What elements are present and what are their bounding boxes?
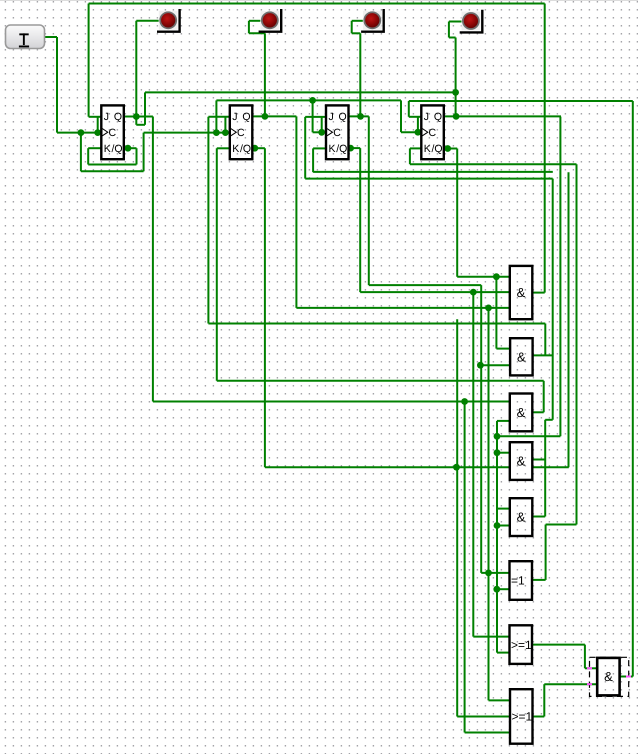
wire into AND U9 input 2 bbox=[544, 683, 597, 685]
junction /Q2 pin bbox=[251, 145, 258, 152]
wire Q2 output bbox=[252, 115, 296, 117]
wire T down to clock row bbox=[56, 37, 58, 133]
svg-text:&: & bbox=[517, 405, 526, 420]
wire /Q2 row through AND U5 input 2 to K4 riser bbox=[265, 466, 569, 468]
junction Q3/LED3 bbox=[357, 113, 364, 120]
wire into K4 pin bbox=[410, 147, 421, 149]
svg-text:/Q: /Q bbox=[336, 143, 347, 155]
wire K4 row bbox=[410, 163, 577, 165]
wire into XOR input 1 bbox=[481, 572, 509, 574]
wire clock under FF1 bottom bbox=[81, 170, 144, 172]
wire into AND U4 input 2 bbox=[497, 420, 510, 422]
wire into AND U5 input 1 bbox=[497, 452, 510, 454]
wire K3 riser to AND U5 in2 row bbox=[568, 172, 570, 467]
wire branch to AND U3 input 1 bbox=[495, 277, 497, 349]
wire into OR2 input 1 bbox=[489, 699, 511, 701]
wire /Q1 under FF1 bbox=[88, 164, 136, 166]
svg-text:/Q: /Q bbox=[240, 143, 251, 155]
wire /Q2 vertical bbox=[264, 148, 266, 467]
wire into C3 pin bbox=[313, 131, 326, 133]
svg-text:K: K bbox=[424, 143, 431, 155]
wire into OR1 input 2 bbox=[497, 652, 510, 654]
wire clock into C1 bbox=[57, 132, 101, 134]
wire /Q4 output row bbox=[444, 148, 457, 150]
svg-text:>=1: >=1 bbox=[511, 638, 532, 652]
svg-text:K: K bbox=[104, 143, 111, 155]
wire into LED4 pin bbox=[449, 21, 462, 23]
junction AND U5 input 1 bbox=[494, 449, 501, 456]
wire upper C-bus to FF3/FF4 clocks bbox=[216, 99, 401, 101]
wire OR2 output riser bbox=[543, 684, 545, 716]
wire into K1 pin bbox=[88, 147, 101, 149]
wire AND U4 output stub bbox=[532, 411, 544, 413]
junction Q3 to AND U3 input 2 bbox=[477, 362, 484, 369]
junction Q1/LED1 bbox=[133, 113, 140, 120]
wire AND U2 output riser to top bus bbox=[544, 4, 546, 293]
junction Q4 to input bus bbox=[494, 433, 501, 440]
svg-text:>=1: >=1 bbox=[512, 710, 533, 724]
junction C3 stub bbox=[318, 129, 325, 136]
wire into OR2 input 3 bbox=[465, 732, 510, 734]
wire into C4 pin bbox=[401, 131, 421, 133]
JK flip-flop U11 (bit1) bbox=[230, 105, 253, 159]
junction /Q3 to OR1 branch bbox=[470, 289, 477, 296]
wire stub C4 to J4 row bbox=[417, 117, 419, 132]
wire LED2 jog up bbox=[248, 21, 250, 34]
wire Q3 output bbox=[348, 115, 369, 117]
gate U7 (XOR) bbox=[510, 561, 533, 600]
svg-text:J: J bbox=[232, 111, 237, 123]
wire K4 down bbox=[409, 148, 411, 164]
wire Q1 branch down to OR2 input 3 bbox=[464, 402, 466, 733]
junction Q1 bus end bbox=[452, 89, 459, 96]
wire into K3 pin bbox=[313, 147, 326, 149]
wire drop to C4 row bbox=[400, 100, 402, 132]
wire /Q3 vertical bbox=[359, 148, 361, 292]
wire J3 row bbox=[305, 178, 553, 180]
junction /Q3 pin bbox=[347, 145, 354, 152]
wire OR1 output drop bbox=[584, 645, 586, 669]
wire AND U4 in2 bus down to OR1 input 2 bbox=[496, 421, 498, 653]
wire AND U6 output bbox=[532, 516, 545, 518]
wire LED4 jog bbox=[449, 37, 456, 39]
wire riser AND U3 output to J2 bbox=[544, 324, 546, 356]
svg-text:C: C bbox=[333, 127, 341, 139]
wire LED3 jog up bbox=[351, 21, 353, 34]
wire Q1 long vertical bbox=[152, 117, 154, 402]
wire stub C3 to J3 row bbox=[321, 117, 323, 132]
wire Q1 horizontal bus bbox=[145, 91, 456, 93]
wire up to K1 bbox=[87, 148, 89, 164]
svg-text:&: & bbox=[517, 349, 526, 364]
wire K2 row from AND U4 output bbox=[217, 380, 544, 382]
wire into AND U2 input 1 bbox=[457, 276, 510, 278]
wire clock to C2 bbox=[144, 132, 230, 134]
LED D3 bbox=[361, 9, 384, 32]
wire /Q4 branch to OR2 input 2 bbox=[456, 319, 458, 716]
svg-text:Q: Q bbox=[339, 111, 347, 123]
junction C-bus to C3 bbox=[309, 97, 316, 104]
wire stub C2 to J2 row bbox=[224, 117, 226, 133]
gate U8 (OR) bbox=[510, 625, 533, 664]
wire J3 riser / AND U3 output drop bbox=[552, 179, 554, 420]
wire into XOR input 2 bbox=[497, 588, 510, 590]
wire clock under FF1 left leg bbox=[80, 133, 82, 172]
wire into J2 pin bbox=[208, 116, 229, 118]
wire OR2 output bbox=[532, 716, 544, 718]
wire drop to C3 row bbox=[312, 100, 314, 132]
wire Q3 drop to XOR input 1 bbox=[480, 285, 482, 573]
svg-text:/Q: /Q bbox=[432, 143, 443, 155]
wire far right riser (AND U9 output to J4) bbox=[632, 101, 634, 677]
junction clock/C1 branch bbox=[78, 129, 85, 136]
gate U6 (AND) bbox=[510, 498, 533, 536]
gate U2 (AND) bbox=[510, 266, 533, 319]
svg-text:/Q: /Q bbox=[112, 143, 123, 155]
svg-text:C: C bbox=[109, 127, 117, 139]
wire Q4 output row bbox=[444, 115, 561, 117]
wire riser clock to upper C-bus bbox=[215, 100, 217, 132]
wire AND U3 output stub bbox=[532, 354, 553, 356]
wire K3 feed row bbox=[313, 171, 553, 173]
wire clock under FF1 right leg bbox=[143, 133, 145, 172]
wire J2 row to AND U3 output riser bbox=[208, 323, 545, 325]
wire AND U5 output bbox=[532, 459, 545, 461]
wire /Q3 output stub bbox=[348, 147, 360, 149]
svg-text:K: K bbox=[232, 143, 239, 155]
wire into AND U6 input 2 bbox=[497, 525, 510, 527]
svg-text:C: C bbox=[429, 127, 437, 139]
wire /Q2 output stub bbox=[252, 147, 265, 149]
svg-text:J: J bbox=[329, 111, 334, 123]
wire into LED1 pin bbox=[136, 20, 159, 22]
wire into AND U3 input 2 bbox=[480, 364, 510, 366]
wire Q1 output bbox=[125, 116, 153, 118]
wire K4 riser long bbox=[576, 164, 578, 524]
wire J4 row to far right riser bbox=[409, 100, 633, 102]
wire from button T output bbox=[45, 36, 58, 38]
wire OR1 output bbox=[532, 644, 585, 646]
wire into AND U3 input 1 bbox=[496, 348, 510, 350]
svg-text:J: J bbox=[104, 111, 109, 123]
junction Q2/LED2 bbox=[262, 113, 269, 120]
JK flip-flop U12 (bit2) bbox=[326, 105, 349, 159]
junction Q1 to OR2 branch bbox=[461, 398, 468, 405]
wire Q1 jog right bbox=[136, 124, 145, 126]
junction AND U2 in1 branch bbox=[493, 273, 500, 280]
junction Q4/LED4 bbox=[453, 113, 460, 120]
wire LED4 jog up bbox=[448, 22, 450, 38]
wire K2 vertical bbox=[216, 148, 218, 380]
wire XOR output bbox=[532, 579, 546, 581]
wire LED4 drop bbox=[455, 38, 457, 117]
gate U4 (AND) bbox=[510, 394, 533, 432]
input button T bbox=[6, 25, 45, 49]
wire Q1 jog up to Q1 bus bbox=[144, 92, 146, 124]
gate U5 (AND) bbox=[510, 442, 533, 480]
wire stub C1 to J1 row bbox=[97, 117, 99, 133]
wire AND U4 output riser bbox=[543, 381, 545, 413]
junction C4 stub bbox=[415, 129, 422, 136]
wire into OR1 input 1 bbox=[473, 636, 509, 638]
wire /Q3 row to AND U2 input 2 bbox=[360, 291, 510, 293]
wire Q2 branch down to OR2 input 1 bbox=[488, 308, 490, 701]
wire XOR output riser bbox=[545, 525, 547, 580]
wire into LED2 pin bbox=[249, 20, 261, 22]
junction XOR input 2 bbox=[493, 586, 500, 593]
wire into J1 pin bbox=[89, 116, 102, 118]
JK flip-flop U10 (bit0) bbox=[101, 105, 124, 159]
wire Q2 vertical bbox=[295, 116, 297, 308]
wire AND U2 output bbox=[532, 292, 544, 294]
wire LED2 drop bbox=[264, 33, 266, 116]
junction AND U6 input 2 bbox=[494, 522, 501, 529]
svg-text:&: & bbox=[517, 285, 526, 300]
svg-text:&: & bbox=[604, 669, 613, 684]
wire into LED3 pin bbox=[352, 20, 363, 22]
junction XOR input 1 bbox=[485, 570, 492, 577]
wire LED1 drop to Q1 bbox=[135, 21, 137, 117]
wire jog AND U5 output bbox=[545, 419, 553, 421]
wire LED2 jog bbox=[249, 32, 265, 34]
svg-text:Q: Q bbox=[242, 111, 250, 123]
junction C1 stub bbox=[94, 129, 101, 136]
wire jog down through AND U5/U6 outputs bbox=[544, 420, 546, 517]
frame top edge bbox=[0, 0, 638, 2]
gate U9s (OR) bbox=[510, 689, 533, 744]
wire Q4 vertical bbox=[559, 117, 561, 437]
gate U3 (AND) bbox=[510, 338, 532, 375]
svg-text:&: & bbox=[517, 510, 526, 525]
wire Q3 row bbox=[369, 284, 481, 286]
wire Q3 vertical bbox=[368, 116, 370, 285]
wire AND U9 output bbox=[620, 676, 633, 678]
wire vertical down to J1 bbox=[88, 4, 90, 117]
svg-text:=1: =1 bbox=[511, 574, 525, 588]
junction /Q1 pin bbox=[125, 145, 132, 152]
wire J3 vertical bbox=[304, 117, 306, 179]
wire J4 up bbox=[408, 101, 410, 117]
wire /Q1 down bbox=[136, 148, 138, 164]
LED D2 bbox=[259, 9, 282, 32]
wire into J3 pin bbox=[305, 116, 330, 118]
wire J2 vertical bbox=[207, 117, 209, 324]
junction AND U5 in2 / OR2 in2 bbox=[453, 464, 460, 471]
junction Q2 to XOR branch bbox=[485, 305, 492, 312]
wire top feedback bus (AND U2 output to J1) bbox=[89, 3, 545, 5]
wire Q1 to AND U4 input 1 bbox=[153, 401, 510, 403]
svg-text:Q: Q bbox=[114, 111, 122, 123]
wire into J4 pin bbox=[409, 116, 422, 118]
wire LED3 jog bbox=[352, 32, 361, 34]
svg-text:Q: Q bbox=[434, 111, 442, 123]
wire into OR2 input 2 bbox=[457, 716, 510, 718]
wire /Q1 output stub bbox=[125, 147, 137, 149]
svg-text:J: J bbox=[424, 111, 429, 123]
wire /Q3 branch down to OR1 input 1 bbox=[472, 292, 474, 636]
wire into K2 pin bbox=[217, 147, 230, 149]
svg-text:K: K bbox=[329, 143, 336, 155]
wire into AND U9 input 1 bbox=[585, 667, 597, 669]
svg-text:C: C bbox=[237, 127, 245, 139]
svg-text:&: & bbox=[517, 454, 526, 469]
wire Q4 row to gate input bus bbox=[497, 435, 560, 437]
wire Q1 jog down bbox=[135, 117, 137, 125]
LED D1 bbox=[157, 9, 180, 32]
wire into AND U6 input 1 bbox=[497, 508, 510, 510]
junction C2 stub bbox=[222, 129, 229, 136]
LED D4 bbox=[460, 10, 483, 33]
JK flip-flop U13 (bit3) bbox=[421, 105, 444, 159]
junction clock to C-bus riser bbox=[213, 129, 220, 136]
wire Q2 row to AND U2 input 3 bbox=[296, 307, 509, 309]
gate U9 (AND, selected) bbox=[587, 657, 631, 696]
junction /Q4 pin bbox=[444, 145, 451, 152]
wire XOR output row to K4 riser bbox=[546, 524, 577, 526]
wire up to K3 stub bbox=[312, 148, 314, 172]
wire /Q4 drop to AND U2 input 1 bbox=[456, 149, 458, 277]
wire LED3 drop bbox=[359, 33, 361, 116]
